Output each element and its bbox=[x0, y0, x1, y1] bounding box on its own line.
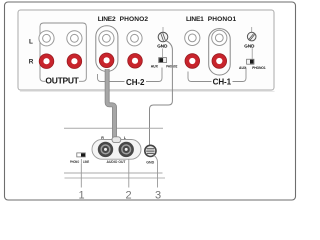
jack PHONO1 L (white RCA) bbox=[212, 30, 227, 45]
svg-text:AUX: AUX bbox=[151, 64, 159, 69]
GND screw CH-1 bbox=[247, 27, 256, 41]
outer frame bbox=[5, 2, 296, 200]
svg-text:L: L bbox=[29, 38, 33, 45]
turntable panel bottom edge 2 bbox=[65, 177, 166, 179]
svg-text:PHONO2: PHONO2 bbox=[120, 16, 149, 23]
svg-text:PHONO1: PHONO1 bbox=[208, 16, 237, 23]
jack OUTPUT R right (red RCA) bbox=[67, 54, 82, 69]
plug body on LINE2 jacks bbox=[96, 26, 118, 72]
jack OUTPUT R left (red RCA) bbox=[39, 54, 54, 69]
switch PHONO/LINE (turntable) bbox=[77, 153, 86, 157]
turntable GND screw bbox=[145, 145, 156, 156]
svg-text:GND: GND bbox=[244, 44, 255, 49]
audio cable from LINE2 plug to turntable bbox=[107, 69, 114, 138]
jack AUDIO OUT R (turntable) bbox=[98, 142, 113, 157]
jack OUTPUT L right (white RCA) bbox=[67, 31, 82, 46]
GND screw CH-2 bbox=[158, 27, 168, 42]
jack LINE2 L (white RCA) bbox=[99, 31, 114, 46]
svg-text:LINE2: LINE2 bbox=[98, 16, 116, 23]
svg-text:AUX: AUX bbox=[239, 65, 247, 70]
svg-text:LINE1: LINE1 bbox=[186, 16, 204, 23]
link GND label to switch CH-2 bbox=[162, 49, 164, 58]
highlight outline on PHONO1 jacks bbox=[209, 29, 231, 75]
switch AUX/PHONO2 bbox=[159, 58, 167, 63]
jack OUTPUT L left (white RCA) bbox=[39, 31, 54, 46]
switch AUX/PHONO1 bbox=[247, 59, 254, 64]
jack AUDIO OUT L (turntable) bbox=[119, 142, 134, 157]
svg-text:R: R bbox=[101, 136, 104, 140]
svg-text:CH-1: CH-1 bbox=[213, 77, 232, 86]
svg-text:PHONO1: PHONO1 bbox=[252, 65, 266, 70]
svg-text:2: 2 bbox=[125, 189, 131, 201]
turntable jack recess bbox=[92, 140, 141, 160]
svg-text:1: 1 bbox=[78, 189, 84, 201]
cable plug into AUDIO OUT bbox=[112, 137, 121, 143]
svg-text:OUTPUT: OUTPUT bbox=[45, 76, 79, 86]
bracket CH-1 bbox=[188, 68, 246, 82]
svg-text:CH-2: CH-2 bbox=[126, 78, 145, 87]
separator PHONO|LINE bbox=[80, 159, 82, 164]
leader line 3 bbox=[154, 155, 158, 187]
link GND label to switch CH-1 bbox=[251, 48, 253, 59]
jack PHONO2 L (white RCA) bbox=[127, 31, 142, 46]
jack LINE2 R (red RCA) bbox=[99, 53, 114, 68]
svg-text:LINE: LINE bbox=[83, 160, 90, 164]
turntable panel bottom edge 1 bbox=[64, 172, 163, 174]
panel bottom shadow bbox=[20, 90, 275, 92]
cable core highlight bbox=[107, 69, 114, 138]
svg-text:GND: GND bbox=[157, 44, 168, 49]
mixer rear panel bbox=[18, 10, 274, 90]
turntable panel top edge bbox=[64, 127, 163, 129]
leader line 2 bbox=[128, 159, 130, 187]
svg-text:AUDIO OUT: AUDIO OUT bbox=[107, 160, 127, 164]
svg-text:GND: GND bbox=[146, 160, 154, 164]
jack PHONO1 R (red RCA) bbox=[212, 54, 227, 69]
ground wire from mixer GND to turntable GND bbox=[150, 41, 173, 146]
bracket CH-2 bbox=[98, 68, 163, 82]
leader line 1 bbox=[80, 164, 82, 188]
svg-text:3: 3 bbox=[155, 189, 161, 201]
svg-text:R: R bbox=[29, 58, 34, 65]
OUTPUT group box bbox=[40, 23, 86, 81]
svg-text:PHONO: PHONO bbox=[70, 160, 79, 164]
jack LINE1 L (white RCA) bbox=[185, 30, 200, 45]
jack LINE1 R (red RCA) bbox=[185, 54, 200, 69]
jack PHONO2 R (red RCA) bbox=[128, 54, 143, 69]
